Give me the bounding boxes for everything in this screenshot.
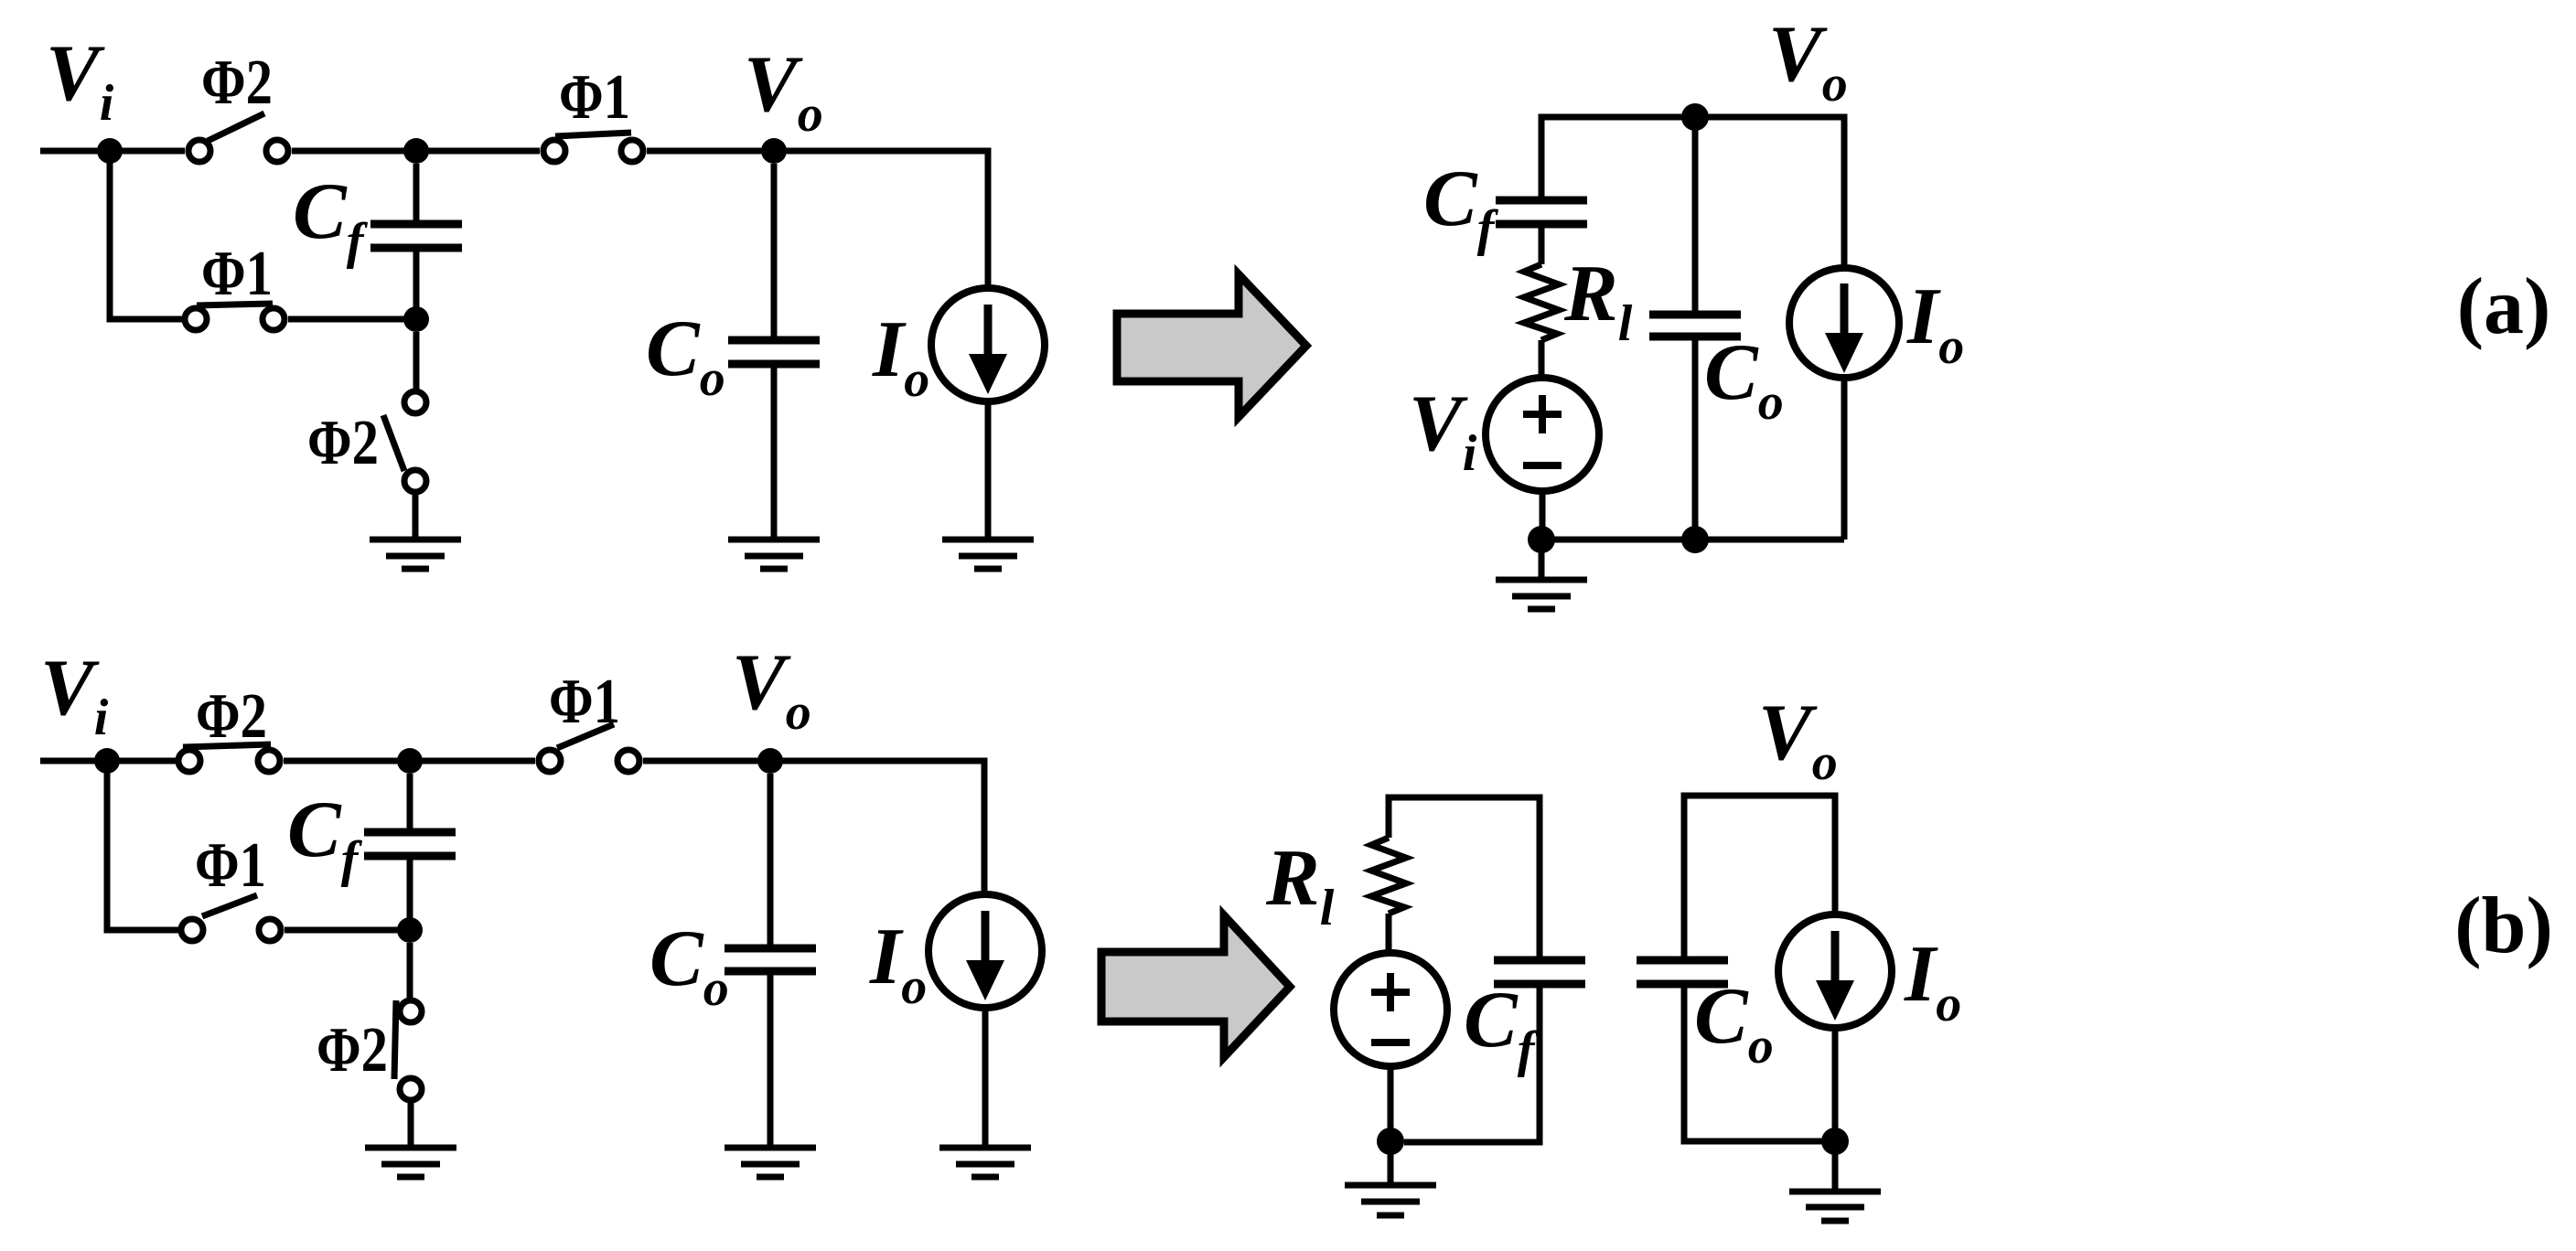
svg-text:Φ1: Φ1	[195, 830, 266, 901]
svg-text:Φ1: Φ1	[559, 62, 630, 133]
wire Φ2 bottom switch to ground row b	[408, 1103, 414, 1146]
capacitor Cf equivalent (a)	[1496, 197, 1587, 205]
svg-text:(a): (a)	[2457, 262, 2551, 351]
wire Co bottom lead to ground row b	[767, 975, 774, 1146]
arrow (a) implication	[1117, 274, 1306, 417]
node Vo row a	[761, 138, 787, 164]
node Vo equivalent (a)	[1681, 103, 1709, 131]
capacitor Cf equivalent (b)	[1494, 957, 1585, 965]
switch Φ2 top row b (closed)	[178, 750, 200, 772]
wire resistor to source equivalent (a)	[1539, 340, 1545, 377]
node top of Cf row a	[403, 138, 429, 164]
capacitor Cf row b	[364, 829, 456, 837]
capacitor Co row b	[724, 945, 816, 953]
wire node to Φ2 bottom switch row a	[413, 332, 420, 389]
node bottom left loop equivalent (b)	[1377, 1128, 1404, 1155]
voltage source Vi equivalent (a)	[1486, 378, 1599, 491]
wire Cf top lead row b	[407, 774, 413, 829]
wire Cf bottom lead and bottom rail of left loop equivalent (b)	[1404, 988, 1540, 1142]
switch Φ2 bottom row b (closed, vertical)	[400, 1000, 422, 1022]
node bottom of Cf row b	[397, 917, 423, 943]
wire Io source to ground row b	[982, 1008, 989, 1146]
resistor RI equivalent (b)	[1371, 838, 1406, 914]
wire Io to bottom node equivalent (b)	[1832, 1028, 1839, 1141]
switch Φ1 top row b (open)	[539, 750, 561, 772]
wire node to Φ1 switch row a	[416, 148, 540, 155]
node bottom left equivalent (a)	[1528, 526, 1555, 553]
current source Io equivalent (b)	[1778, 914, 1892, 1028]
svg-text:Φ2: Φ2	[307, 408, 379, 478]
current source Io row a	[931, 288, 1045, 401]
switch Φ2 bottom row a (open, vertical)	[404, 391, 426, 413]
ground equivalent (a)	[1539, 540, 1545, 578]
wire top rail equivalent (a)	[1541, 117, 1844, 266]
svg-text:Φ1: Φ1	[549, 667, 620, 737]
ground left loop equivalent (b)	[1388, 1141, 1394, 1183]
wire input stub row b	[40, 758, 176, 764]
ground below Co row b	[724, 1145, 816, 1151]
wire Φ2 switch to node row b	[284, 758, 410, 764]
current source Io equivalent (a)	[1789, 268, 1899, 378]
wire Co bottom lead to ground row a	[771, 368, 778, 538]
wire Co top lead row b	[767, 774, 774, 945]
wire Φ2 switch to node row a	[292, 148, 416, 155]
node bottom middle equivalent (a)	[1681, 526, 1709, 553]
current source Io row b	[928, 894, 1042, 1008]
node top of Cf row b	[397, 748, 423, 774]
wire top rail and left branch of right loop equivalent (b)	[1684, 796, 1835, 957]
wire Vi node down and right to lower Φ1 switch row b	[107, 761, 178, 930]
wire node to Φ1 switch row b	[410, 758, 535, 764]
ground below Co row a	[728, 537, 820, 543]
wire input stub row a	[40, 148, 185, 155]
wire Φ1 switch to Vo node and corner down to Io row b	[643, 761, 984, 893]
svg-text:(b): (b)	[2454, 882, 2553, 970]
wire Co top lead equivalent (a)	[1692, 117, 1699, 311]
voltage source equivalent (b)	[1334, 953, 1447, 1066]
node Vo row b	[757, 748, 783, 774]
resistor RI equivalent (a)	[1524, 264, 1559, 340]
wire node to Φ2 bottom switch row b	[407, 943, 413, 999]
switch Φ1 lower row a (closed)	[185, 308, 207, 330]
ground below Φ2 switch row a	[370, 537, 461, 543]
wire Cf to resistor equivalent (a)	[1539, 228, 1545, 264]
ground below Φ2 switch row b	[365, 1145, 456, 1151]
switch Φ1 top row a (closed)	[543, 140, 565, 162]
wire Φ2 bottom switch to ground row a	[413, 495, 419, 538]
wire Io to bottom rail equivalent (a)	[1841, 378, 1848, 540]
wire Cf bottom lead row a	[413, 251, 420, 319]
wire Φ1 switch to Vo node and corner down to Io row a	[647, 151, 988, 285]
node bottom right loop equivalent (b)	[1821, 1128, 1849, 1155]
wire bottom rail equivalent (a)	[1541, 537, 1844, 543]
wire top rail and right branch top of left loop equivalent (b)	[1389, 797, 1540, 957]
capacitor Cf row a	[370, 220, 462, 229]
arrow (b) implication	[1101, 915, 1290, 1057]
wire source to bottom node equivalent (b)	[1388, 1066, 1394, 1142]
wire Io source to ground row a	[985, 401, 992, 538]
wire Cf top lead row a	[413, 164, 420, 220]
wire lower Φ1 switch to bottom node of Cf row a	[288, 316, 416, 323]
wire Co bottom lead and bottom rail of right loop equivalent (b)	[1684, 988, 1835, 1141]
wire Cf bottom lead row b	[407, 860, 413, 930]
wire resistor to source equivalent (b)	[1386, 914, 1392, 953]
ground right loop equivalent (b)	[1832, 1141, 1839, 1190]
wire Co top lead row a	[771, 164, 778, 337]
capacitor Co equivalent (b)	[1637, 957, 1728, 965]
ground below Io row a	[942, 537, 1034, 543]
wire lower Φ1 switch to bottom node of Cf row b	[284, 927, 410, 934]
svg-text:Φ2: Φ2	[196, 681, 267, 752]
svg-text:Φ2: Φ2	[201, 48, 273, 118]
switch Φ2 top row a (open)	[188, 140, 210, 162]
switch Φ1 lower row b (open)	[181, 919, 203, 941]
wire Vi node down and right to lower Φ1 switch row a	[110, 151, 185, 319]
svg-text:Φ2: Φ2	[317, 1015, 388, 1085]
svg-text:Φ1: Φ1	[201, 239, 273, 309]
capacitor Co row a	[728, 337, 820, 345]
node Vi (input) row a	[97, 138, 123, 164]
wire source to bottom rail equivalent (a)	[1540, 491, 1546, 540]
capacitor Co equivalent (a)	[1649, 311, 1741, 319]
ground below Io row b	[939, 1145, 1031, 1151]
node Vi (input) row b	[94, 748, 120, 774]
wire Co bottom lead equivalent (a)	[1692, 340, 1699, 540]
node bottom of Cf row a	[403, 306, 429, 332]
